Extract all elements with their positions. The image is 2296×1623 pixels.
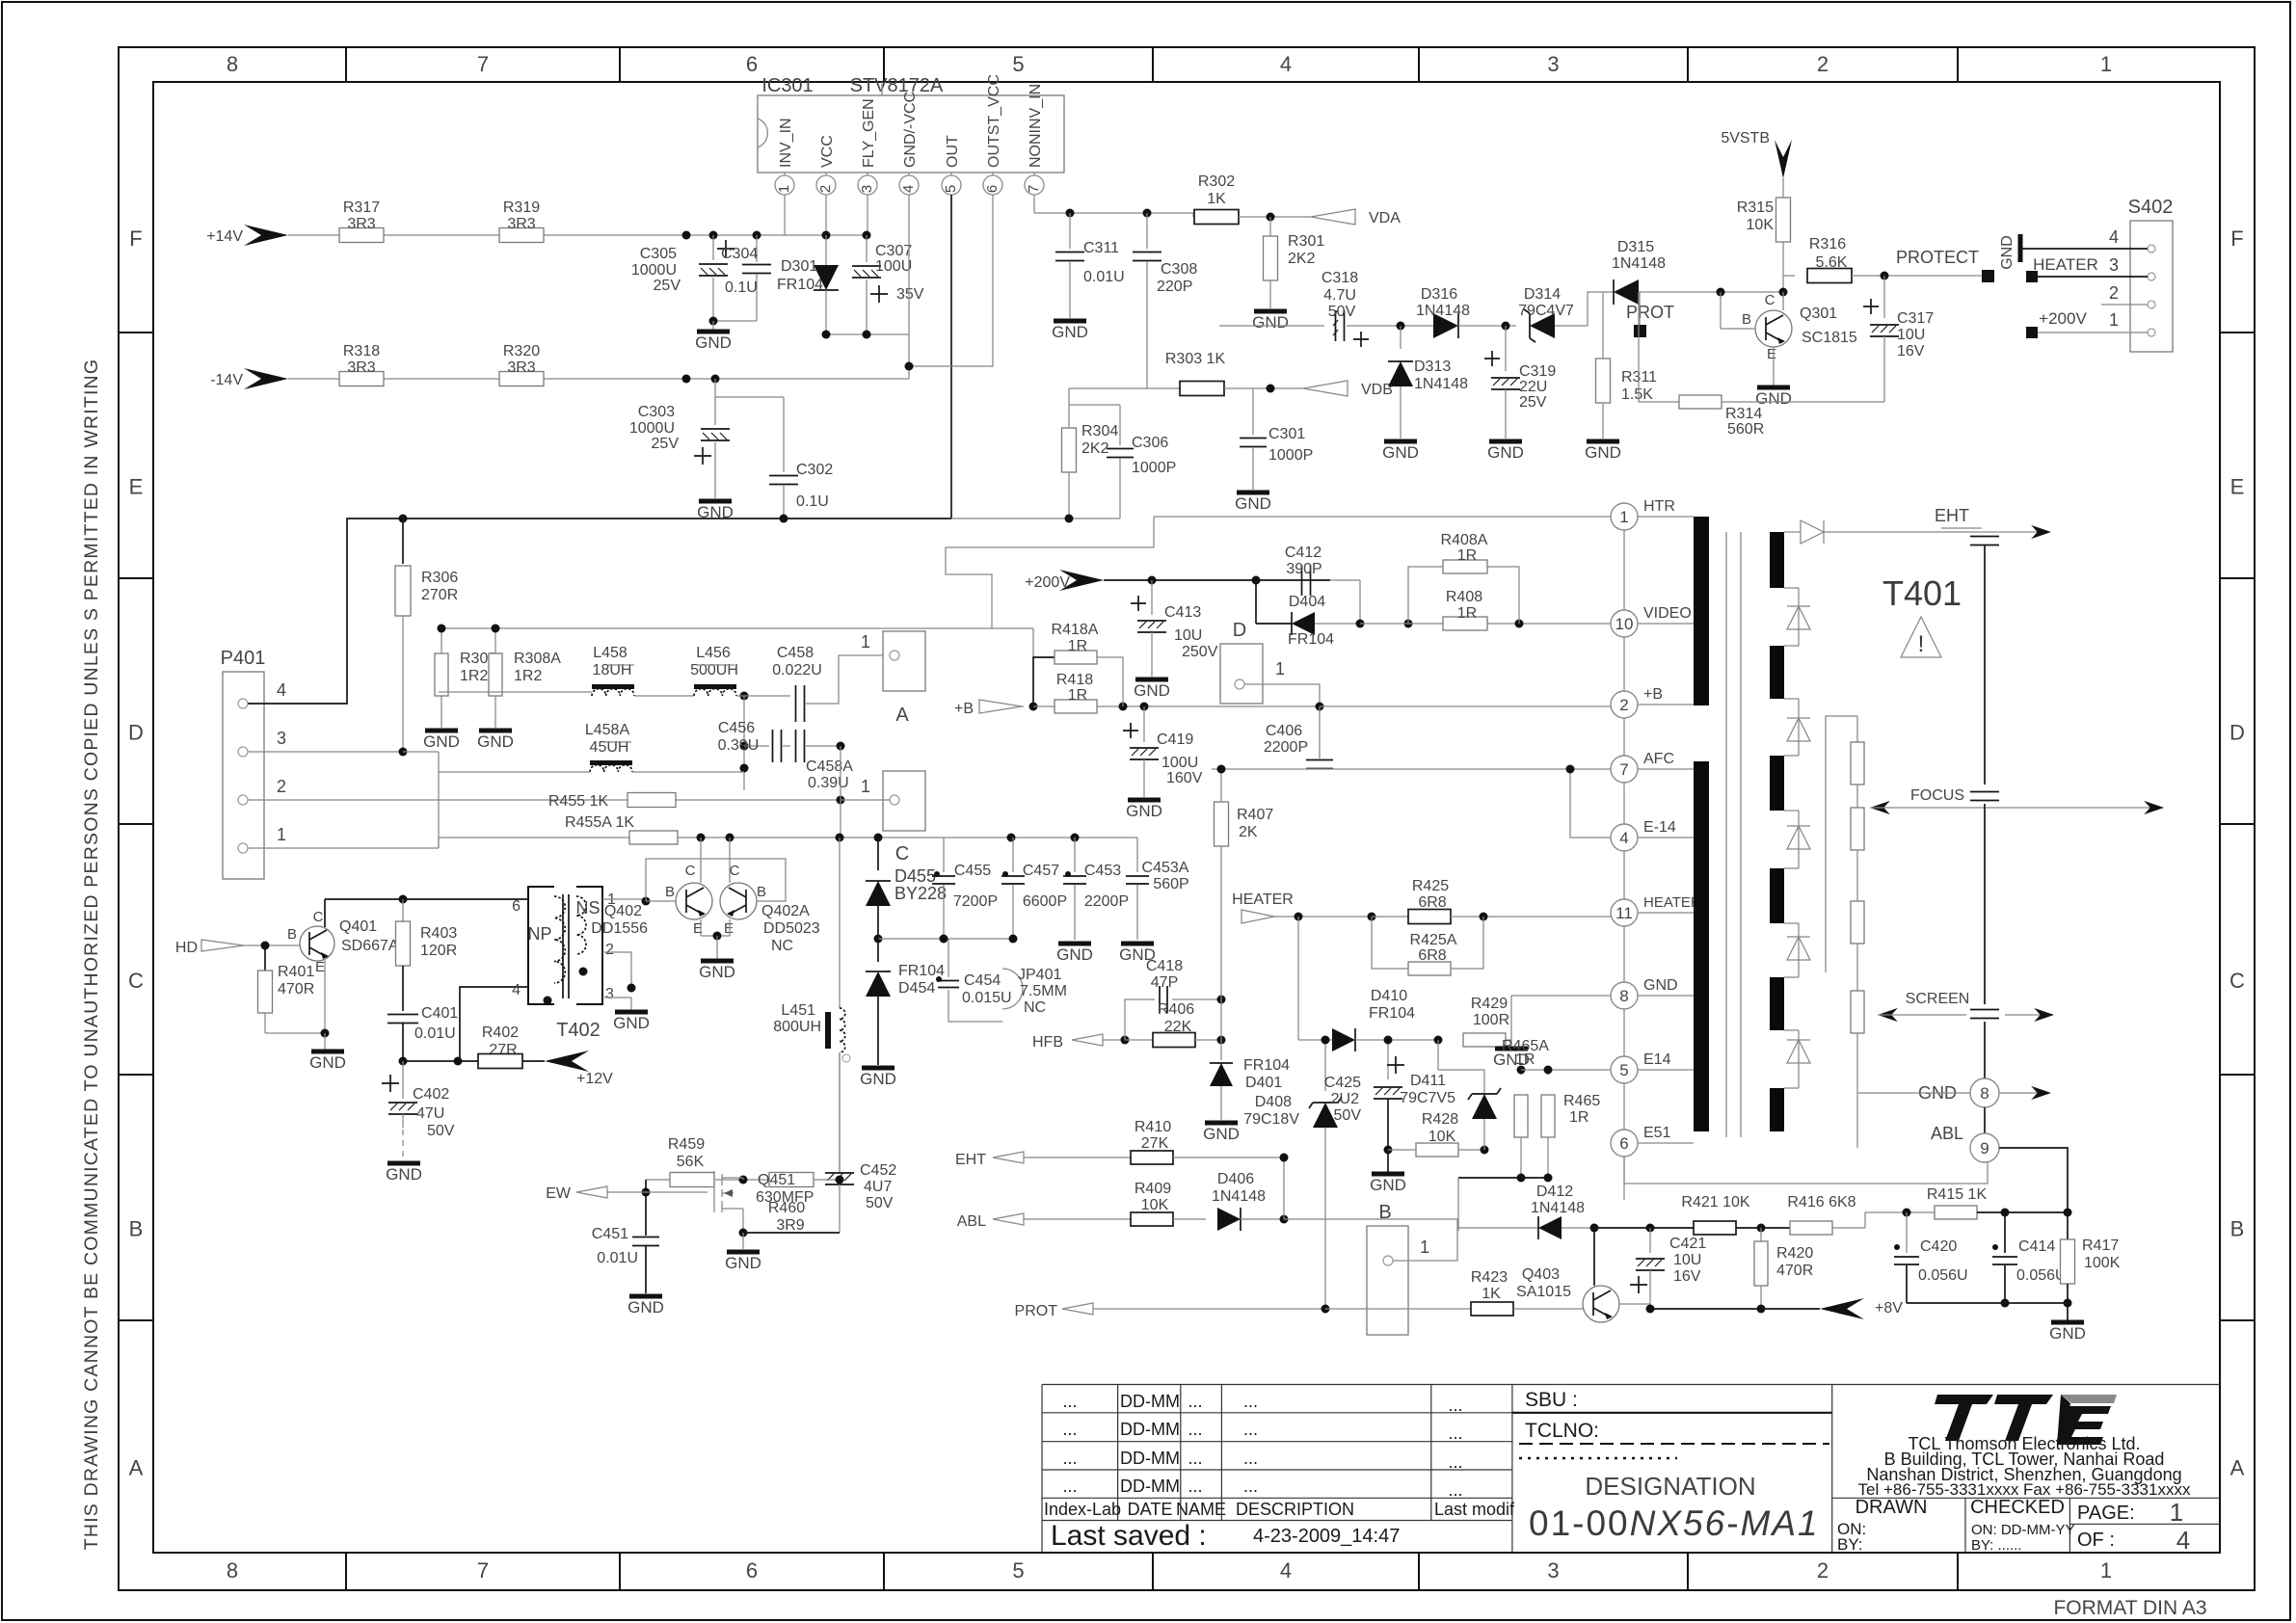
svg-text:C418: C418 <box>1146 958 1183 974</box>
svg-text:1: 1 <box>2170 1498 2183 1527</box>
resistor R425 6R8 <box>1372 916 1409 918</box>
svg-text:160V: 160V <box>1166 770 1203 786</box>
svg-text:2: 2 <box>2109 283 2119 303</box>
+12V entry arrow <box>545 1051 589 1072</box>
ground GND pin8 branch <box>1495 1047 1528 1051</box>
svg-text:THIS DRAWING CANNOT BE COMMUNI: THIS DRAWING CANNOT BE COMMUNICATED TO U… <box>81 359 102 1550</box>
wire AFC row <box>1212 768 1611 770</box>
IC301 pin 7 NONINV_IN <box>1025 175 1044 195</box>
svg-text:4: 4 <box>1619 829 1628 847</box>
svg-text:PAGE:: PAGE: <box>2077 1503 2135 1524</box>
ABL signal arrow <box>993 1213 1024 1225</box>
ground GND under C311 <box>1054 319 1086 324</box>
svg-text:25V: 25V <box>654 278 681 294</box>
wire Q402 collectors to rail869 <box>700 838 702 883</box>
svg-text:2: 2 <box>1817 52 1829 76</box>
svg-text:...: ... <box>1188 1449 1202 1468</box>
svg-text:4: 4 <box>2109 227 2119 247</box>
wire rail652 down to +B <box>1032 628 1034 658</box>
svg-text:R304: R304 <box>1081 423 1118 439</box>
svg-text:C401: C401 <box>421 1005 458 1022</box>
svg-text:2: 2 <box>817 185 834 193</box>
svg-text:...: ... <box>1188 1477 1202 1496</box>
resistor R423 1K <box>1471 1302 1513 1316</box>
svg-text:GND: GND <box>860 1070 896 1088</box>
svg-text:6R8: 6R8 <box>1418 947 1446 964</box>
svg-text:D411: D411 <box>1410 1073 1446 1089</box>
wire source right <box>743 1232 840 1234</box>
+8V entry arrow <box>1820 1298 1864 1319</box>
resistor R317 <box>339 228 384 243</box>
ground GND under Q451 <box>742 1233 744 1249</box>
svg-text:100K: 100K <box>2084 1255 2121 1271</box>
svg-text:GND: GND <box>699 963 735 981</box>
wire +200V rail <box>1104 579 1330 581</box>
resistor R306 270R <box>402 519 404 564</box>
svg-text:E: E <box>1767 346 1776 362</box>
svg-text:GND: GND <box>2049 1324 2086 1343</box>
capacitor C452 4U7 50V <box>839 1052 841 1170</box>
HD signal arrow <box>201 940 244 951</box>
svg-text:R315: R315 <box>1737 200 1774 216</box>
svg-text:B: B <box>129 1217 144 1241</box>
svg-text:D316: D316 <box>1421 286 1457 303</box>
VDB signal arrow <box>1303 381 1348 396</box>
svg-text:E-14: E-14 <box>1643 819 1676 836</box>
resistor R420 470R <box>1760 1228 1762 1241</box>
svg-text:GND/-VCC: GND/-VCC <box>902 92 919 168</box>
PROT signal arrow <box>1062 1303 1093 1315</box>
ground GND under R308A <box>479 729 512 733</box>
svg-text:D301: D301 <box>781 258 817 275</box>
svg-text:3R3: 3R3 <box>507 216 535 232</box>
wire +14V rail <box>288 234 340 236</box>
capacitor C318 <box>1219 325 1324 327</box>
svg-text:D412: D412 <box>1536 1184 1573 1200</box>
T401 pin 2 +B <box>1611 691 1638 718</box>
wire Q301 emitter to GND <box>1773 347 1775 386</box>
svg-text:...: ... <box>1062 1420 1077 1439</box>
inductor L458A 45UH <box>590 760 632 765</box>
resistor R421 10K <box>1694 1221 1736 1235</box>
svg-text:C419: C419 <box>1157 732 1193 748</box>
svg-text:C: C <box>685 863 696 879</box>
svg-text:1R: 1R <box>1068 687 1087 704</box>
svg-text:1R2: 1R2 <box>460 668 488 684</box>
diode D315 1N4148 <box>1614 279 1639 305</box>
svg-text:10: 10 <box>1615 615 1634 633</box>
svg-text:VIDEO: VIDEO <box>1643 605 1692 622</box>
svg-text:10U: 10U <box>1897 327 1925 343</box>
svg-text:0.39U: 0.39U <box>808 775 849 791</box>
svg-text:HEATER: HEATER <box>1643 894 1701 911</box>
svg-text:C458A: C458A <box>806 758 853 775</box>
svg-text:C406: C406 <box>1266 723 1302 739</box>
HEATER signal arrow <box>1241 910 1274 923</box>
svg-text:...: ... <box>1062 1477 1077 1496</box>
+B signal arrow <box>979 700 1022 713</box>
ground GND at S402 pin4 <box>2018 234 2023 262</box>
svg-text:D454: D454 <box>898 980 935 997</box>
svg-text:R318: R318 <box>343 343 380 359</box>
EHT cable capacitor <box>1970 537 1999 545</box>
node R315 R316 <box>1779 288 1788 297</box>
wire C454 JP bottom <box>948 1021 1002 1023</box>
resistor R314 560R <box>1639 292 1679 402</box>
transistor Q401 SD667A <box>300 926 334 961</box>
wire VIDEO row <box>1360 623 1444 625</box>
svg-text:4: 4 <box>1280 52 1292 76</box>
ground GND under C319 <box>1489 439 1522 444</box>
connector P401 body <box>223 672 264 879</box>
svg-text:R459: R459 <box>668 1136 705 1153</box>
svg-text:C: C <box>128 969 144 993</box>
svg-text:D: D <box>128 721 144 745</box>
svg-text:1K: 1K <box>1482 1286 1501 1302</box>
warning triangle <box>1901 617 1941 657</box>
resistor R311 1.5K <box>1602 292 1604 359</box>
svg-text:C: C <box>895 843 909 865</box>
transformer T402 secondary NS <box>576 887 602 1004</box>
svg-text:EHT: EHT <box>1935 506 1969 525</box>
svg-text:1R2: 1R2 <box>514 668 542 684</box>
T401 secondary rectifier diodes <box>1798 588 1800 646</box>
ground GND under T402 pin3 <box>615 1010 648 1015</box>
connector S402 body <box>2130 221 2173 352</box>
svg-text:E: E <box>129 475 144 499</box>
svg-text:GND: GND <box>1382 443 1419 462</box>
wire 5VSTB to R315 <box>1782 178 1784 198</box>
svg-text:!: ! <box>1918 631 1925 657</box>
svg-text:16V: 16V <box>1897 343 1925 359</box>
svg-text:DD-MM: DD-MM <box>1120 1392 1180 1411</box>
svg-text:1N4148: 1N4148 <box>1414 376 1468 392</box>
resistor R315 10K <box>1776 198 1791 242</box>
svg-text:D404: D404 <box>1289 594 1325 610</box>
svg-text:560P: 560P <box>1153 876 1188 892</box>
svg-text:1000P: 1000P <box>1132 460 1176 476</box>
T401 pin 10 VIDEO <box>1611 610 1638 637</box>
svg-text:A: A <box>2230 1456 2245 1480</box>
diode D301 FR104 <box>825 235 827 265</box>
svg-text:R402: R402 <box>482 1024 519 1041</box>
svg-text:R425: R425 <box>1412 878 1449 894</box>
svg-text:SCREEN: SCREEN <box>1906 991 1970 1007</box>
svg-text:1: 1 <box>277 825 286 844</box>
svg-text:SA1015: SA1015 <box>1516 1284 1571 1300</box>
svg-text:GND: GND <box>1370 1176 1406 1194</box>
svg-text:3R9: 3R9 <box>776 1217 804 1234</box>
svg-text:C402: C402 <box>413 1086 449 1103</box>
ground GND under C301 <box>1237 491 1269 495</box>
svg-text:GND: GND <box>423 732 460 751</box>
resistor R303 <box>1180 382 1224 396</box>
svg-text:3R3: 3R3 <box>347 359 375 376</box>
svg-text:1.5K: 1.5K <box>1621 386 1653 403</box>
svg-text:6: 6 <box>746 1558 758 1583</box>
wire HEATER to D410 <box>1297 917 1299 1040</box>
ground GND under C402 <box>387 1161 420 1166</box>
resistor R316 5.6K <box>1783 275 1795 277</box>
svg-text:+14V: +14V <box>206 228 243 245</box>
FOCUS row <box>1870 801 1890 814</box>
svg-text:100R: 100R <box>1473 1012 1509 1028</box>
S402 pin 2 <box>2148 301 2155 308</box>
svg-text:R455 1K: R455 1K <box>548 793 609 810</box>
svg-text:E: E <box>315 959 325 975</box>
svg-text:3: 3 <box>1547 52 1559 76</box>
wire corner to D315 row <box>1588 292 1614 326</box>
svg-text:C452: C452 <box>860 1162 896 1179</box>
svg-text:3: 3 <box>605 986 614 1002</box>
svg-text:E: E <box>2230 475 2245 499</box>
svg-text:OUT: OUT <box>945 135 961 168</box>
svg-text:R403: R403 <box>420 925 457 942</box>
capacitor C402 47U <box>382 1075 399 1092</box>
svg-text:D455: D455 <box>894 866 936 886</box>
wire P401 pin2 <box>248 799 511 801</box>
wire R304 C306 bottom <box>951 518 1120 519</box>
svg-text:GND: GND <box>725 1254 761 1272</box>
svg-text:C451: C451 <box>592 1226 628 1242</box>
wire C305 C304 join <box>713 320 757 322</box>
resistor R416 6K8 <box>1790 1221 1832 1235</box>
wire L458 to L456 <box>634 695 694 697</box>
wire -14V rail <box>288 378 340 380</box>
capacitor C406 2200P <box>1319 706 1321 758</box>
svg-text:Q451: Q451 <box>758 1172 795 1188</box>
wire +B to pin2 <box>1320 705 1611 707</box>
T401 pin 7 AFC <box>1611 756 1638 783</box>
svg-text:0.056U: 0.056U <box>1918 1267 1968 1284</box>
terminal box A <box>883 631 925 691</box>
svg-text:NC: NC <box>771 938 793 954</box>
ground GND under R308 <box>425 729 458 733</box>
svg-text:Q402A: Q402A <box>761 903 810 919</box>
svg-text:3R3: 3R3 <box>507 359 535 376</box>
svg-text:2: 2 <box>1619 696 1628 714</box>
wire HTR feed <box>1154 516 1611 518</box>
svg-text:C457: C457 <box>1023 863 1059 879</box>
svg-text:PROTECT: PROTECT <box>1896 248 1979 267</box>
svg-text:B: B <box>2230 1217 2245 1241</box>
capacitor C451 0.01U <box>632 1237 659 1246</box>
svg-text:Q403: Q403 <box>1522 1266 1560 1283</box>
svg-text:C453: C453 <box>1084 863 1121 879</box>
svg-text:...: ... <box>1243 1392 1258 1411</box>
svg-text:79C18V: 79C18V <box>1243 1111 1299 1128</box>
wire pin3 stub <box>867 195 868 235</box>
svg-text:D314: D314 <box>1524 286 1561 303</box>
capacitor C307 <box>866 235 868 262</box>
IC301 pin 1 INV_IN <box>775 175 794 195</box>
svg-text:E14: E14 <box>1643 1051 1671 1068</box>
wire Q301 collector <box>1782 292 1784 310</box>
svg-text:C306: C306 <box>1132 435 1168 451</box>
jumper JP401 <box>1002 969 1023 1009</box>
svg-text:DESIGNATION: DESIGNATION <box>1585 1472 1755 1501</box>
svg-text:...: ... <box>1062 1449 1077 1468</box>
svg-text:HTR: HTR <box>1643 498 1675 515</box>
svg-text:1: 1 <box>1275 659 1285 678</box>
ground GND under C419 <box>1128 798 1161 803</box>
svg-text:C453A: C453A <box>1142 860 1189 876</box>
inductor L458 18UH <box>592 684 634 689</box>
svg-text:250V: 250V <box>1182 644 1218 660</box>
svg-text:120R: 120R <box>420 943 457 959</box>
svg-text:5: 5 <box>1012 52 1024 76</box>
svg-text:1: 1 <box>1420 1237 1429 1257</box>
svg-text:1: 1 <box>1619 508 1628 526</box>
svg-text:GND: GND <box>1643 977 1678 994</box>
svg-text:R401: R401 <box>278 964 314 980</box>
svg-text:...: ... <box>1188 1392 1202 1411</box>
svg-text:C311: C311 <box>1083 240 1119 256</box>
svg-text:100U: 100U <box>1161 755 1198 771</box>
resistor R465 1R <box>1547 1070 1549 1075</box>
svg-text:E: E <box>724 920 734 937</box>
TTE logo <box>1935 1395 2117 1445</box>
svg-text:C308: C308 <box>1161 261 1197 278</box>
S402 pin 3 <box>2148 273 2155 280</box>
svg-text:C319: C319 <box>1519 363 1556 380</box>
svg-text:3: 3 <box>277 729 286 748</box>
svg-text:0.01U: 0.01U <box>414 1025 456 1042</box>
svg-text:1: 1 <box>2100 52 2112 76</box>
svg-text:470R: 470R <box>1776 1263 1813 1279</box>
wire R407 down to D401 <box>1220 999 1222 1040</box>
svg-text:STV8172A: STV8172A <box>850 75 944 96</box>
svg-text:GND: GND <box>1487 443 1524 462</box>
wire Q451 source down <box>742 1209 744 1233</box>
svg-text:GND: GND <box>1252 313 1289 332</box>
wire HD to Q401 base <box>244 945 300 946</box>
node +B <box>1029 703 1038 711</box>
CRT pin ABL 9 <box>1970 1133 1999 1162</box>
svg-text:R418: R418 <box>1056 672 1093 688</box>
wire Q401 collector <box>324 899 326 927</box>
svg-text:EHT: EHT <box>955 1152 986 1168</box>
svg-text:R409: R409 <box>1135 1181 1171 1197</box>
svg-text:50V: 50V <box>1334 1107 1362 1124</box>
svg-text:7: 7 <box>1026 185 1042 193</box>
svg-text:E51: E51 <box>1643 1125 1671 1141</box>
capacitor C305 <box>712 235 714 260</box>
svg-text:2200P: 2200P <box>1084 893 1129 910</box>
svg-text:NONINV_IN: NONINV_IN <box>1028 84 1044 168</box>
svg-text:2K: 2K <box>1239 824 1258 840</box>
inductor L456 500UH <box>694 684 736 689</box>
transistor Q403 SA1015 <box>1583 1286 1619 1322</box>
connector B box <box>1367 1226 1408 1335</box>
svg-text:C458: C458 <box>777 645 814 661</box>
capacitor C317 <box>1883 276 1885 318</box>
wire C302 branch <box>715 396 784 398</box>
svg-text:1: 1 <box>2100 1558 2112 1583</box>
svg-text:FLY_GEN: FLY_GEN <box>861 98 877 168</box>
svg-text:CHECKED: CHECKED <box>1970 1497 2065 1518</box>
wire rail869 left <box>438 838 440 848</box>
svg-text:C317: C317 <box>1897 310 1934 327</box>
svg-text:0.022U: 0.022U <box>772 662 822 678</box>
resistor R409 10K <box>1131 1212 1173 1226</box>
svg-text:OF :: OF : <box>2077 1530 2115 1551</box>
svg-text:D313: D313 <box>1414 359 1451 375</box>
wire D pin to +B rail <box>1244 684 1320 706</box>
svg-text:SC1815: SC1815 <box>1802 330 1857 346</box>
wire +8V rail <box>1650 1308 1761 1310</box>
svg-text:VDA: VDA <box>1369 210 1401 226</box>
svg-text:8: 8 <box>227 52 238 76</box>
wire E-14 pin4 branch <box>1570 769 1611 838</box>
HEATER square and wire <box>2026 271 2038 282</box>
svg-text:DD-MM: DD-MM <box>1120 1420 1180 1439</box>
wire screen cap to GND pin <box>1984 1022 1986 1078</box>
diode D408 79C18V <box>1324 1040 1326 1091</box>
capacitor C455 7200P <box>943 838 945 872</box>
svg-text:GND: GND <box>1235 494 1271 513</box>
svg-text:EW: EW <box>546 1185 572 1202</box>
svg-text:S402: S402 <box>2128 197 2174 218</box>
node rail974 <box>874 935 883 944</box>
focus capacitor <box>1970 792 1999 801</box>
capacitor C304 <box>756 235 758 262</box>
wire Q451 drain <box>742 1178 744 1180</box>
wire ABL row continue <box>1284 1218 1458 1220</box>
P401 pin 4 <box>238 699 248 708</box>
svg-text:7.5MM: 7.5MM <box>1020 983 1067 999</box>
svg-text:...: ... <box>1188 1420 1202 1439</box>
svg-text:GND: GND <box>1999 235 2016 270</box>
capacitor C412 390P <box>1302 565 1311 596</box>
resistor R459 56K <box>670 1173 714 1187</box>
svg-text:GND: GND <box>1056 945 1093 964</box>
svg-text:NC: NC <box>1024 999 1046 1016</box>
wire pin1 stub <box>784 195 786 235</box>
wire pin5 long down <box>950 195 952 519</box>
svg-text:4U7: 4U7 <box>864 1179 892 1195</box>
svg-text:D: D <box>1233 620 1246 641</box>
capacitor C301 <box>1252 388 1254 435</box>
svg-text:C305: C305 <box>640 246 677 262</box>
svg-text:B: B <box>1378 1202 1391 1223</box>
svg-text:SBU :: SBU : <box>1525 1389 1578 1411</box>
svg-text:56K: 56K <box>677 1154 705 1170</box>
svg-text:D406: D406 <box>1217 1171 1254 1187</box>
wire R314 to C317 bottom <box>1722 401 1884 403</box>
wire Q402 emitters join <box>700 919 702 936</box>
svg-text:C454: C454 <box>964 972 1001 989</box>
svg-text:10U: 10U <box>1673 1252 1701 1268</box>
svg-text:390P: 390P <box>1286 561 1322 577</box>
svg-text:B: B <box>1742 311 1751 328</box>
svg-text:10K: 10K <box>1141 1197 1169 1213</box>
capacitor C303 <box>714 379 716 425</box>
svg-text:Index-Lab: Index-Lab <box>1044 1500 1121 1519</box>
svg-text:P401: P401 <box>221 648 266 669</box>
resistor R302 <box>1192 213 1194 217</box>
svg-text:0.1U: 0.1U <box>796 493 829 510</box>
wire D404 loop <box>1255 580 1257 624</box>
svg-text:0.056U: 0.056U <box>2016 1267 2067 1284</box>
wire collector rail to T402 pin6 <box>325 898 528 900</box>
wire Q403 emitter right <box>1619 1303 1650 1305</box>
svg-text:GND: GND <box>1203 1125 1240 1143</box>
transistor Q402A DD5023 <box>720 883 757 919</box>
diode D410 FR104 <box>1332 1028 1355 1051</box>
svg-text:79C4V7: 79C4V7 <box>1518 303 1574 319</box>
svg-text:R465: R465 <box>1563 1093 1600 1109</box>
